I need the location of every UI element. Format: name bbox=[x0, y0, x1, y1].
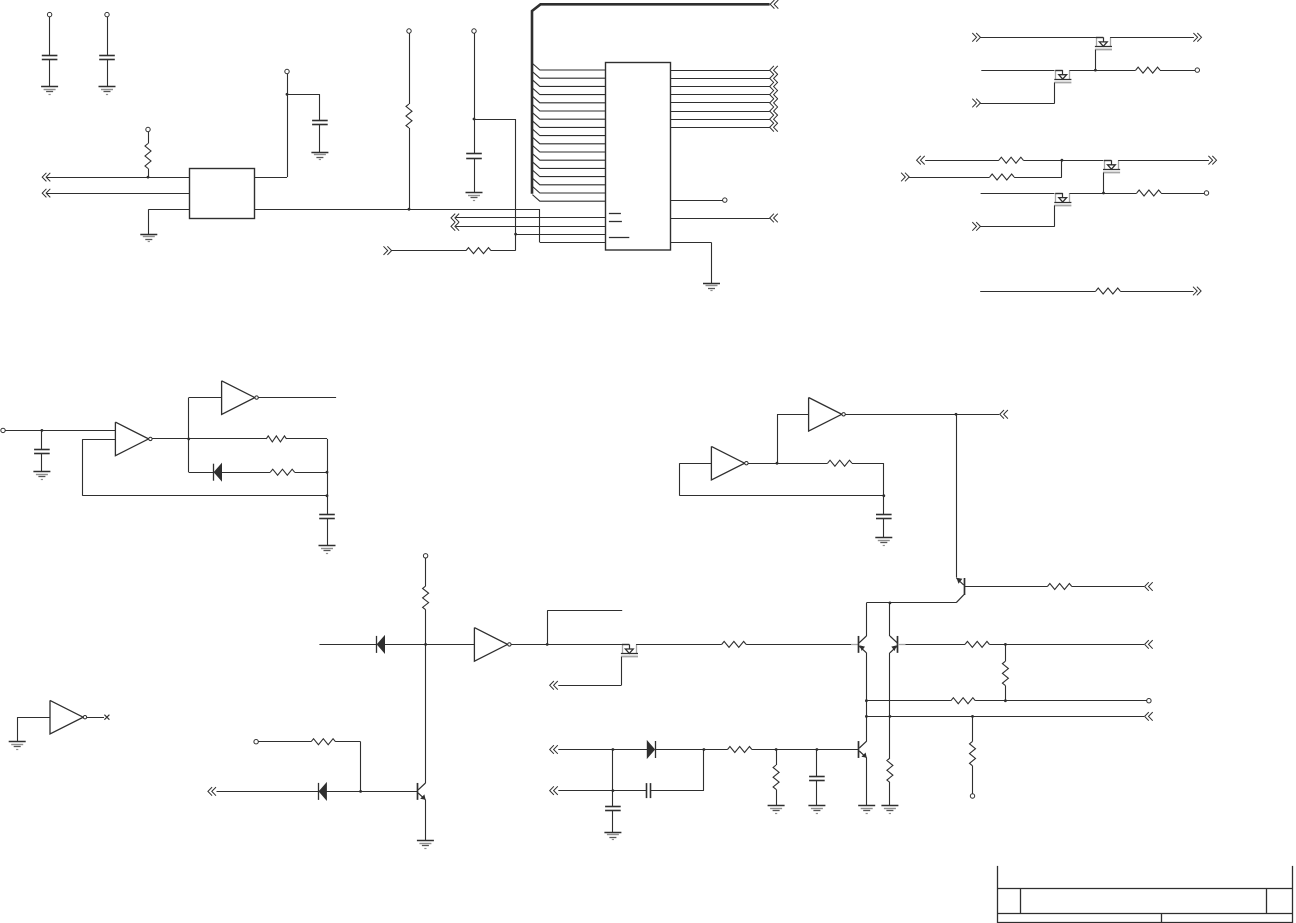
wire D3 net b bbox=[327, 791, 418, 793]
wire U4B out bbox=[845, 414, 999, 416]
wire R18 vert b bbox=[1005, 686, 1007, 701]
wire Q2 base net bbox=[906, 644, 966, 646]
wire Q5 emit bbox=[425, 800, 427, 841]
wire Q2 coll vert bbox=[889, 603, 891, 636]
wire C4 gnd lead bbox=[474, 158, 476, 193]
resistor R20 bbox=[311, 739, 335, 745]
junction J29 bbox=[816, 748, 819, 751]
ground G12 bbox=[417, 841, 434, 849]
wire R18 vert a bbox=[1005, 644, 1007, 661]
wire D3 net a bbox=[217, 791, 319, 793]
resistor R15 bbox=[887, 758, 893, 782]
wire line1 b bbox=[975, 700, 1005, 702]
bus B1 bbox=[532, 4, 770, 193]
resistor R19 bbox=[970, 741, 976, 765]
diode D2 bbox=[377, 636, 385, 653]
wire inv5 line b bbox=[385, 644, 475, 646]
transistor Q4 bbox=[859, 741, 867, 758]
terminal P8 bbox=[1195, 68, 1199, 72]
junction J30 bbox=[546, 643, 549, 646]
wire U2 out net bbox=[670, 218, 769, 220]
connector CHR2 bbox=[770, 74, 778, 83]
connector CH7 bbox=[972, 33, 980, 42]
wire g2 lB b bbox=[1014, 177, 1062, 179]
wire Q3 base bbox=[964, 586, 1047, 588]
terminal P4 bbox=[146, 127, 150, 131]
wire R22 vert bbox=[776, 750, 778, 766]
connector CH18 bbox=[1145, 582, 1153, 591]
wire Q4 coll bbox=[866, 716, 868, 741]
wire inv2 in vert bbox=[188, 398, 190, 473]
connector CH10 bbox=[917, 156, 925, 165]
ground G16 bbox=[858, 806, 875, 814]
wire D1 a bbox=[189, 472, 214, 474]
connector CH19 bbox=[1145, 640, 1153, 649]
wire U2 gnd a bbox=[670, 242, 711, 244]
resistor R10 bbox=[270, 469, 294, 475]
bus tap 15 bbox=[532, 178, 605, 185]
wire C1 bottom lead bbox=[49, 59, 51, 86]
bus tap 10 bbox=[532, 137, 605, 144]
connector CH14 bbox=[1193, 287, 1201, 296]
wire U2 bus out 8 bbox=[670, 127, 769, 129]
wire U2 out circle bbox=[670, 200, 722, 202]
connector CH17 bbox=[1145, 712, 1153, 721]
bus tap 9 bbox=[532, 129, 605, 136]
bus tap 14 bbox=[532, 170, 605, 177]
connector CHB bbox=[770, 0, 778, 9]
junction J18 bbox=[865, 699, 868, 702]
wire g2 lD bbox=[980, 226, 1054, 228]
wire Q2 emit vert bbox=[889, 653, 891, 717]
wire C3 lead bbox=[319, 94, 321, 120]
wire R19 vert b bbox=[972, 766, 974, 794]
inverter U4A bbox=[711, 446, 748, 480]
ground G11 bbox=[9, 742, 26, 750]
terminal P10 bbox=[1, 428, 5, 432]
terminal P3 bbox=[285, 69, 289, 73]
connector CH16 bbox=[550, 681, 558, 690]
transistor M2 bbox=[1054, 70, 1071, 82]
junction J26 bbox=[703, 748, 706, 751]
wire osc2 fb h bbox=[680, 495, 884, 497]
bus tap 1 bbox=[532, 63, 605, 70]
wire g2 lC b bbox=[1070, 193, 1137, 195]
wire R9 out bbox=[287, 438, 328, 440]
terminal P5 bbox=[407, 29, 411, 33]
wire net4 bbox=[456, 217, 606, 219]
connector CHR6 bbox=[770, 107, 778, 116]
resistor R14 bbox=[951, 698, 975, 704]
wire M5 gate lead bbox=[621, 657, 623, 686]
module U1 bbox=[190, 169, 255, 219]
wire coll line bbox=[866, 602, 956, 604]
junction J23 bbox=[971, 715, 974, 718]
ground G5 bbox=[466, 193, 483, 201]
bus tap 7 bbox=[532, 113, 605, 120]
ground G13 bbox=[604, 833, 621, 840]
junction J6 bbox=[1094, 69, 1097, 72]
wire g2 lA c bbox=[1118, 160, 1209, 162]
junction J5 bbox=[514, 233, 517, 236]
wire R1 top lead bbox=[148, 132, 150, 144]
wire g2 lC a bbox=[981, 193, 1055, 195]
bus tap 16 bbox=[532, 186, 605, 193]
connector CH9 bbox=[972, 99, 980, 108]
U2 pin mark 3 bbox=[609, 237, 629, 239]
wire net3a bbox=[392, 250, 466, 252]
wire U4A in bbox=[680, 463, 712, 465]
junction J20 bbox=[865, 715, 868, 718]
connector CH12 bbox=[901, 173, 909, 182]
wire U1 pin3 bbox=[149, 209, 190, 211]
wire g2 lB a bbox=[909, 177, 990, 179]
wire U4B in bbox=[777, 414, 809, 416]
transistor M1 bbox=[1095, 37, 1112, 49]
wire line1 bbox=[866, 700, 951, 702]
wire C2 top lead bbox=[107, 17, 109, 55]
inverter U4B bbox=[809, 398, 846, 432]
wire Q3 vert bbox=[956, 414, 958, 577]
junction J4 bbox=[473, 118, 476, 121]
resistor R2 bbox=[406, 104, 412, 128]
junction J8 bbox=[1102, 192, 1105, 195]
terminal P13 bbox=[970, 794, 974, 798]
wire inv5 line a bbox=[319, 644, 376, 646]
wire U1 out bottom bbox=[255, 209, 540, 211]
inverter U3B bbox=[222, 381, 259, 415]
connector CH6 bbox=[770, 214, 778, 223]
terminal P11 bbox=[423, 554, 427, 558]
resistor R8 bbox=[1096, 288, 1120, 294]
ground G10 bbox=[881, 806, 898, 814]
junction J27 bbox=[612, 789, 615, 792]
wire bn1 a bbox=[558, 749, 647, 751]
IC U2 bbox=[606, 63, 671, 251]
ground G9 bbox=[875, 538, 892, 546]
junction J7 bbox=[1061, 159, 1064, 162]
terminal P12 bbox=[1147, 699, 1151, 703]
wire bn2 b bbox=[651, 790, 704, 792]
wire U5 out bbox=[511, 644, 622, 646]
U2 pin mark 1 bbox=[609, 213, 621, 215]
U2 pin mark 2 bbox=[609, 221, 622, 223]
wire Q4 emit bbox=[866, 758, 868, 806]
transistor Q3 bbox=[956, 578, 964, 603]
connector CH15 bbox=[1000, 410, 1008, 419]
wire gnd lead U1 bbox=[148, 209, 150, 234]
connector CH4 bbox=[451, 214, 459, 223]
wire U4A out bbox=[748, 463, 827, 465]
junction J3 bbox=[408, 208, 411, 211]
junction J22 bbox=[1004, 643, 1007, 646]
wire U2 bus out 1 bbox=[670, 70, 769, 72]
connector CH21 bbox=[550, 745, 558, 754]
bus tap 2 bbox=[532, 72, 605, 79]
resistor R16 bbox=[1047, 584, 1071, 590]
wire Q1 base net bbox=[746, 644, 851, 646]
transistor Q5 bbox=[418, 783, 426, 800]
junction J16 bbox=[424, 643, 427, 646]
junction J10 bbox=[187, 438, 190, 441]
capacitor C4 bbox=[466, 154, 482, 159]
resistor R17 bbox=[965, 641, 989, 647]
terminal P6 bbox=[472, 29, 476, 33]
wire g2 lB up bbox=[1061, 160, 1063, 177]
junction J15 bbox=[955, 413, 958, 416]
bus tap 13 bbox=[532, 162, 605, 169]
wire branch up bbox=[547, 611, 549, 645]
transistor M4 bbox=[1054, 193, 1071, 206]
connector CHR7 bbox=[770, 115, 778, 124]
terminal P2 bbox=[105, 12, 109, 16]
wire U2 bus out 3 bbox=[670, 86, 769, 88]
bus tap 4 bbox=[532, 88, 605, 95]
resistor R1 bbox=[145, 144, 151, 169]
connector CH5 bbox=[451, 222, 459, 231]
wire R22 gnd bbox=[776, 789, 778, 805]
connector CHR5 bbox=[770, 99, 778, 108]
wire U6 in bbox=[17, 717, 50, 719]
wire R2 bottom lead bbox=[409, 128, 411, 209]
wire U2 gnd b bbox=[711, 243, 713, 284]
wire U6 in vert bbox=[17, 717, 19, 741]
resistor R3 bbox=[466, 248, 491, 254]
resistor R5 bbox=[999, 157, 1023, 163]
title block frame bbox=[997, 866, 1293, 923]
connector CH8 bbox=[1193, 33, 1201, 42]
wire U2 bus out 7 bbox=[670, 119, 769, 121]
wire C10 lead bbox=[816, 750, 818, 777]
wire R15 vert bbox=[889, 716, 891, 758]
wire C3 gnd lead bbox=[319, 124, 321, 152]
wire C9 gnd bbox=[612, 811, 614, 833]
wire g3 b bbox=[1120, 291, 1193, 293]
wire Q3 base b bbox=[1072, 586, 1144, 588]
diode D1 bbox=[214, 464, 222, 481]
wire g1 l1 b bbox=[1110, 37, 1194, 39]
wire R20 corner bbox=[360, 742, 362, 792]
connector CH2 bbox=[42, 189, 50, 198]
junction J17 bbox=[889, 602, 892, 605]
capacitor C3 bbox=[312, 121, 328, 125]
junction J25 bbox=[612, 748, 615, 751]
wire net5 bbox=[456, 226, 606, 228]
capacitor C8 bbox=[647, 783, 651, 798]
junction J11 bbox=[326, 471, 329, 474]
wire C5 lead bbox=[41, 430, 43, 449]
wire g2 lC c bbox=[1161, 193, 1204, 195]
connector CHR4 bbox=[770, 90, 778, 99]
wire node Y vert bbox=[883, 463, 885, 514]
wire Q5 coll vert bbox=[425, 644, 427, 783]
Q2 base gray bbox=[898, 644, 906, 646]
bus tap 11 bbox=[532, 145, 605, 152]
wire R2 top lead bbox=[409, 33, 411, 104]
wire U3A out bbox=[152, 438, 266, 440]
bus tap 5 bbox=[532, 96, 605, 103]
wire M3 gate lead bbox=[1103, 173, 1105, 193]
wire Q1 coll vert bbox=[866, 603, 868, 636]
wire osc1 fb in bbox=[82, 439, 115, 441]
bus tap 17 bbox=[532, 195, 605, 202]
wire corner down bbox=[539, 209, 541, 242]
wire osc2 fb vert bbox=[679, 463, 681, 496]
wire vert 515 bbox=[515, 119, 517, 251]
wire Q4 base net b bbox=[752, 749, 859, 751]
wire bn2 corner bbox=[703, 750, 705, 791]
junction J9 bbox=[41, 429, 44, 432]
wire osc1 in a bbox=[5, 430, 42, 432]
resistor R12 bbox=[423, 586, 429, 610]
wire branch right bbox=[474, 119, 516, 121]
ground G1 bbox=[41, 87, 58, 95]
resistor R21 bbox=[728, 747, 752, 753]
junction J13 bbox=[776, 462, 779, 465]
capacitor C7 bbox=[876, 515, 892, 519]
wire U3B in bbox=[189, 397, 222, 399]
wire net3b bbox=[491, 250, 516, 252]
diode D4 bbox=[647, 741, 655, 758]
wire M1 gate lead bbox=[1095, 50, 1097, 70]
ground G8 bbox=[319, 546, 336, 554]
terminal P14 bbox=[254, 740, 258, 744]
connector CH13 bbox=[972, 222, 980, 231]
resistor R7 bbox=[1137, 190, 1161, 196]
connector CH22 bbox=[550, 786, 558, 795]
wire M5 out bbox=[636, 644, 722, 646]
ground G4 bbox=[140, 235, 157, 242]
wire R15 gnd bbox=[889, 783, 891, 806]
wire D1 b bbox=[222, 472, 271, 474]
diode D3 bbox=[319, 783, 327, 800]
resistor R6 bbox=[990, 174, 1014, 180]
junction J24 bbox=[359, 790, 362, 793]
wire to U2 pin bbox=[540, 242, 606, 244]
ground G7 bbox=[33, 472, 50, 480]
wire U6 out bbox=[87, 717, 104, 719]
ground G14 bbox=[768, 806, 785, 814]
capacitor C2 bbox=[99, 56, 115, 60]
wire R20 out bbox=[336, 741, 361, 743]
wire M5 gate net bbox=[558, 685, 621, 687]
wire g2 lA b bbox=[1023, 160, 1103, 162]
wire R10 out bbox=[295, 472, 327, 474]
wire g1 l2 b bbox=[1070, 70, 1136, 72]
wire C2 bottom lead bbox=[107, 59, 109, 86]
wire g1 l2 c bbox=[1160, 70, 1195, 72]
terminal P9 bbox=[1204, 191, 1208, 195]
connector CH3 bbox=[384, 246, 392, 255]
no-connect X bbox=[104, 715, 109, 720]
junction J12 bbox=[326, 494, 329, 497]
wire U1 out right bbox=[255, 177, 288, 179]
resistor R18 bbox=[1002, 661, 1008, 685]
wire U2 bus out 5 bbox=[670, 102, 769, 104]
ground G3 bbox=[311, 153, 328, 160]
wire g1 l1 a bbox=[980, 37, 1096, 39]
resistor R22 bbox=[773, 765, 779, 789]
inverter U5 bbox=[474, 628, 511, 662]
wire g1 l3 bbox=[980, 103, 1054, 105]
capacitor C1 bbox=[42, 56, 58, 60]
wire g3 a bbox=[980, 291, 1096, 293]
wire to C3 bbox=[287, 94, 320, 96]
wire C6 gnd lead bbox=[327, 518, 329, 545]
wire U3B out bbox=[258, 397, 336, 399]
connector CHR1 bbox=[770, 66, 778, 75]
wire bn1 b bbox=[655, 749, 704, 751]
inverter U3A bbox=[115, 422, 152, 456]
capacitor C10 bbox=[809, 777, 825, 781]
Q1 base gray bbox=[851, 644, 859, 646]
transistor M5 bbox=[621, 644, 638, 656]
terminal P1 bbox=[47, 12, 51, 16]
connector CHR8 bbox=[770, 123, 778, 132]
wire osc1 in b bbox=[42, 430, 116, 432]
wire mid vert bbox=[612, 750, 614, 807]
ground G15 bbox=[808, 806, 825, 814]
wire C5 gnd lead bbox=[41, 454, 43, 472]
connector CH11 bbox=[1208, 156, 1216, 165]
resistor R11 bbox=[828, 460, 852, 466]
capacitor C6 bbox=[319, 515, 335, 519]
terminal P7 bbox=[723, 198, 727, 202]
junction J19 bbox=[1004, 699, 1007, 702]
capacitor C9 bbox=[605, 807, 621, 811]
wire g1 l2 a bbox=[981, 70, 1054, 72]
wire to U2 pinB bbox=[516, 234, 606, 236]
connector CHR3 bbox=[770, 82, 778, 91]
junction J1 bbox=[286, 93, 289, 96]
wire bn2 a bbox=[558, 790, 646, 792]
wire C10 gnd bbox=[816, 781, 818, 806]
wire R1 bottom lead bbox=[148, 169, 150, 178]
wire U2 bus out 2 bbox=[670, 78, 769, 80]
wire R19 vert a bbox=[972, 716, 974, 741]
ground G2 bbox=[99, 87, 116, 95]
wire C4 top lead bbox=[474, 33, 476, 154]
wire M2 gate lead bbox=[1054, 83, 1056, 104]
wire R12 bot lead bbox=[425, 610, 427, 645]
bus tap 6 bbox=[532, 104, 605, 111]
connector CH1 bbox=[42, 173, 50, 182]
transistor Q1 bbox=[859, 636, 867, 653]
wire R11 out bbox=[852, 463, 884, 465]
wire osc1 fb vert bbox=[82, 439, 84, 496]
resistor R13 bbox=[722, 641, 746, 647]
wire U4B in vert bbox=[777, 414, 779, 463]
wire net1 bbox=[47, 177, 189, 179]
transistor M3 bbox=[1103, 160, 1120, 172]
transistor Q2 bbox=[890, 636, 898, 653]
wire osc1 fb h bbox=[82, 495, 327, 497]
wire line2 bbox=[866, 716, 1144, 718]
junction J14 bbox=[882, 494, 885, 497]
resistor R4 bbox=[1136, 67, 1160, 73]
wire g2 lA a bbox=[925, 160, 999, 162]
connector CH20 bbox=[208, 787, 216, 796]
wire C1 top lead bbox=[49, 17, 51, 55]
resistor R9 bbox=[266, 436, 286, 442]
wire R20 in bbox=[258, 741, 311, 743]
ground G6 bbox=[703, 284, 720, 291]
wire Q1 emit vert bbox=[866, 653, 868, 717]
wire C7 gnd lead bbox=[883, 519, 885, 538]
wire U2 bus out 4 bbox=[670, 94, 769, 96]
wire M4 gate lead bbox=[1054, 205, 1056, 226]
capacitor C5 bbox=[34, 450, 50, 454]
